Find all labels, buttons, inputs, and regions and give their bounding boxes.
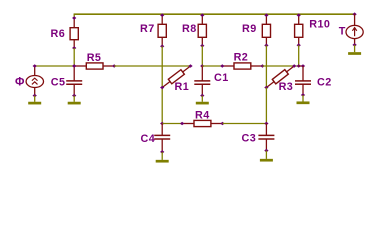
- capacitor C3: [242, 124, 275, 153]
- svg-text:C2: C2: [317, 77, 332, 89]
- ground under C1: [196, 96, 209, 104]
- wire: R7 down through R1 pin to R4 node: [161, 46, 163, 123]
- node junction R4/C3: [264, 122, 268, 126]
- wire: R8 to C1 node: [201, 46, 203, 66]
- wire: R5 to R1/C1 node: [114, 65, 190, 67]
- resistor R5: [72, 52, 116, 69]
- node C2 top: [301, 64, 305, 68]
- wire: R2 to R3/R10 node: [263, 65, 299, 67]
- resistor R4: [180, 109, 225, 126]
- svg-text:T: T: [339, 25, 346, 37]
- svg-text:R8: R8: [182, 23, 197, 35]
- resistor R2: [220, 52, 265, 70]
- ground under T: [348, 45, 361, 54]
- svg-text:R7: R7: [140, 23, 155, 35]
- svg-text:C1: C1: [214, 72, 229, 84]
- capacitor C2: [295, 66, 332, 97]
- source V_phi (sine source): [15, 64, 44, 97]
- wire: R6 to node: [73, 48, 75, 66]
- svg-text:R4: R4: [195, 109, 210, 121]
- wire: R9 down to R3 pin: [265, 45, 267, 87]
- wire: R3 pin to C3 node: [265, 88, 267, 124]
- wire: R4 to C3 node: [223, 123, 267, 125]
- node junction R10: [297, 64, 301, 68]
- svg-text:C5: C5: [51, 76, 66, 88]
- resistor R10: [295, 13, 331, 47]
- source T (current source): [339, 12, 363, 46]
- resistor R6: [51, 16, 79, 50]
- wire: C1 node to R2: [202, 65, 222, 67]
- svg-text:R3: R3: [279, 81, 294, 93]
- svg-text:Φ: Φ: [15, 77, 25, 89]
- ground under C3: [260, 151, 273, 161]
- wire: R10 to node: [298, 45, 300, 66]
- resistor R9: [242, 13, 271, 47]
- capacitor C4: [141, 124, 171, 154]
- ground under C5: [68, 96, 81, 104]
- node junction R8/C1: [200, 64, 204, 68]
- resistor R7: [140, 13, 166, 48]
- wire: phi source to node: [35, 65, 74, 67]
- svg-text:R9: R9: [242, 23, 257, 35]
- ground under C4: [156, 152, 169, 161]
- capacitor C1: [194, 66, 228, 97]
- resistor R3 (tilted): [265, 64, 296, 90]
- svg-text:C4: C4: [141, 133, 156, 145]
- wire: top supply rail: [74, 13, 355, 15]
- wire: node to C2: [299, 65, 303, 67]
- svg-text:R6: R6: [51, 28, 66, 40]
- ground under C2: [297, 95, 310, 103]
- svg-text:R2: R2: [234, 52, 249, 64]
- wire: rail stub to R6: [73, 14, 75, 18]
- svg-text:R1: R1: [175, 81, 190, 93]
- svg-text:R5: R5: [87, 52, 102, 64]
- svg-text:R10: R10: [309, 19, 330, 31]
- node junction R7col/R4/C4: [160, 122, 164, 126]
- resistor R8: [182, 13, 206, 47]
- capacitor C5: [51, 66, 82, 97]
- ground under phi source: [28, 96, 41, 104]
- svg-text:C3: C3: [242, 133, 257, 145]
- resistor R1 (tilted): [160, 64, 192, 90]
- node junction R6/C5/R5: [72, 64, 76, 68]
- wire: node to R4: [162, 123, 182, 125]
